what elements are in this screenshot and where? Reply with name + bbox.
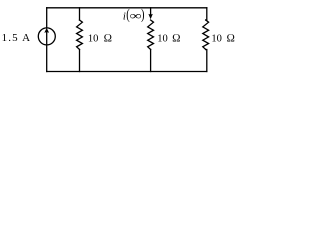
svg-text:1.5 A: 1.5 A bbox=[2, 32, 32, 44]
svg-text:10: 10 bbox=[211, 34, 222, 45]
svg-text:Ω: Ω bbox=[104, 33, 113, 45]
svg-text:10: 10 bbox=[88, 34, 99, 45]
svg-text:10: 10 bbox=[157, 34, 168, 45]
svg-text:Ω: Ω bbox=[172, 33, 181, 45]
svg-text:): ) bbox=[141, 7, 145, 23]
svg-text:∞: ∞ bbox=[130, 10, 142, 23]
svg-text:Ω: Ω bbox=[226, 33, 235, 45]
